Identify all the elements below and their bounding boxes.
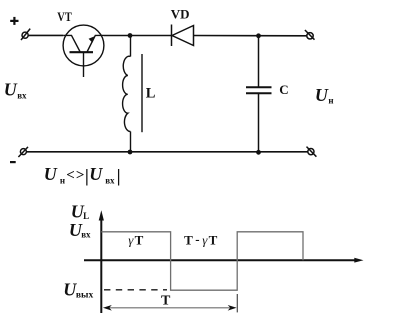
wire bottom rail (26, 151, 308, 153)
base bar (70, 51, 94, 53)
capacitor C (246, 36, 272, 153)
vertical axis (99, 210, 104, 313)
label U_vx axis (69, 220, 91, 240)
wire top rail right (194, 35, 308, 37)
svg-text:VD: VD (171, 7, 190, 22)
svg-text:U: U (89, 164, 103, 184)
svg-text:U: U (44, 164, 58, 184)
svg-text:н: н (60, 175, 65, 185)
node capacitor top (256, 33, 261, 38)
svg-text:вх: вх (105, 175, 115, 185)
base lead down (83, 52, 85, 77)
svg-text:γ: γ (128, 232, 134, 247)
output terminal bottom (307, 147, 317, 157)
label U_L (71, 201, 89, 221)
inductor L (123, 35, 142, 151)
waveform U_L (101, 232, 303, 290)
label U_vyx axis (63, 279, 93, 300)
svg-text:U: U (315, 85, 329, 105)
svg-text:VT: VT (57, 9, 72, 24)
svg-text:T: T (161, 294, 171, 309)
svg-text:U: U (4, 80, 18, 100)
transistor VT (63, 25, 104, 77)
svg-text:T: T (135, 232, 144, 247)
wire top rail left (28, 34, 63, 36)
svg-text:вых: вых (76, 290, 94, 300)
svg-text:<: < (66, 168, 75, 184)
svg-text:L: L (146, 86, 156, 102)
svg-text:вх: вх (17, 91, 27, 101)
dimension extension line (236, 294, 238, 312)
wire top rail middle (104, 35, 172, 37)
svg-text:T: T (184, 232, 193, 247)
label T minus gamma-T (184, 232, 218, 248)
input terminal top (21, 29, 30, 40)
formula U_n <> |U_vx| (44, 164, 121, 186)
plus terminal label (10, 17, 18, 25)
horizontal axis (84, 258, 364, 263)
svg-text:L: L (83, 211, 89, 221)
emitter arrow (89, 36, 96, 43)
svg-text:T: T (209, 232, 218, 247)
label gamma-T (128, 232, 143, 247)
label U_n load voltage (315, 85, 334, 105)
node inductor bottom (128, 150, 133, 155)
label U_vx input voltage (4, 80, 27, 101)
diode VD (172, 25, 194, 47)
left lead bend (63, 35, 80, 52)
svg-text:γ: γ (202, 232, 208, 247)
svg-text:|: | (117, 166, 121, 186)
input terminal bottom (18, 147, 28, 157)
svg-text:>: > (76, 168, 85, 184)
minus terminal label (10, 161, 16, 163)
svg-text:-: - (195, 232, 199, 247)
output terminal top (305, 30, 315, 40)
svg-text:C: C (279, 82, 288, 97)
dashed level U_vyx (104, 289, 167, 291)
dimension T arrows (103, 305, 237, 311)
node inductor top (128, 33, 133, 38)
node capacitor bottom (256, 150, 261, 155)
svg-text:н: н (328, 95, 333, 105)
svg-text:вх: вх (81, 229, 91, 239)
right lead bend (87, 35, 104, 52)
